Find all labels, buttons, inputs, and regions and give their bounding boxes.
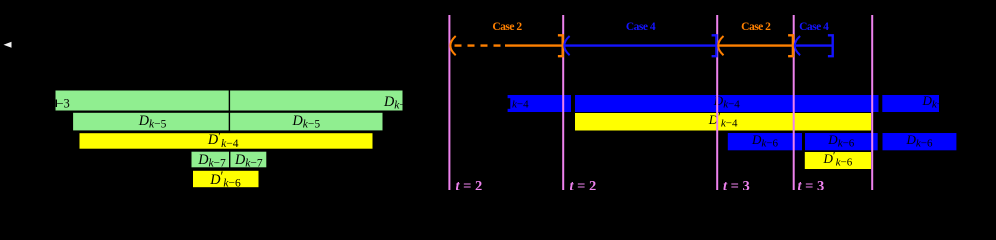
Case 4 interval arrow (blue) <box>564 35 716 56</box>
dashed segment <box>455 44 507 46</box>
arrow tip left <box>795 36 800 55</box>
right square bracket <box>788 35 793 56</box>
divider row1 center <box>228 90 230 111</box>
left axis arrowhead (white) <box>4 42 12 48</box>
arrow tip left <box>718 36 723 55</box>
vertical line t3 (violet) <box>716 15 718 190</box>
Case 2 interval arrow second (orange) <box>718 35 793 56</box>
svg-text:−3: −3 <box>57 97 70 111</box>
bracket tabs on left edge <box>508 95 511 98</box>
vertical line t5 (violet) <box>871 15 873 190</box>
partial k glyph at clip edge <box>56 100 57 108</box>
svg-text:Case 2: Case 2 <box>741 21 771 33</box>
blue bar D_{k-6} segment 3 (right row 3) <box>883 132 957 150</box>
Case 4 interval arrow second (blue) <box>795 35 833 56</box>
blue bar D_{k-6} segment 1 (right row 3) <box>728 132 802 150</box>
Case 2 interval arrow (orange, dashed then solid) <box>450 35 562 56</box>
svg-text:Case 2: Case 2 <box>492 21 522 33</box>
divider row2 center <box>228 112 230 131</box>
svg-text:k−4: k−4 <box>512 99 529 111</box>
box D_{k-5} pair (left stack row 2) <box>73 112 383 131</box>
yellow bar D'_{k-6} (right row 4) <box>805 149 871 169</box>
line <box>719 44 793 46</box>
svg-text:Case 4: Case 4 <box>626 21 656 33</box>
svg-text:t = 2: t = 2 <box>456 178 483 190</box>
svg-text:t = 2: t = 2 <box>570 178 597 190</box>
box D'_{k-4} (left stack row 3, yellow) <box>79 129 373 150</box>
box D_{k-3} (left stack row 1) <box>55 90 412 112</box>
blue bar D_{k-4} segment A (right row 1) <box>508 95 571 112</box>
solid segment <box>505 44 563 46</box>
blue bar D_k segment C (right row 1) <box>882 93 949 112</box>
blue bar D_{k-6} segment 2 (right row 3) <box>805 132 878 150</box>
right square bracket <box>712 35 717 56</box>
divider row4 center <box>229 151 231 168</box>
right square bracket <box>558 35 563 56</box>
line <box>796 44 833 46</box>
box D_{k-7} pair (left stack row 4) <box>191 151 267 169</box>
vertical line t1 (violet) <box>448 15 450 190</box>
line <box>565 44 716 46</box>
vertical line t4 (violet) <box>793 15 795 190</box>
arrow tip left <box>450 36 455 55</box>
svg-text:t = 3: t = 3 <box>723 178 750 190</box>
yellow bar D'_{k-4} (right row 2) <box>575 110 871 131</box>
box D'_{k-6} (left stack row 5, yellow) <box>193 169 260 190</box>
svg-text:t = 3: t = 3 <box>798 178 825 190</box>
vertical line t2 (violet) <box>562 15 564 190</box>
blue bar D_{k-4} segment B (right row 1) <box>575 93 879 112</box>
right square bracket <box>828 35 833 56</box>
arrow tip left <box>564 36 569 55</box>
svg-text:Case 4: Case 4 <box>799 21 829 33</box>
